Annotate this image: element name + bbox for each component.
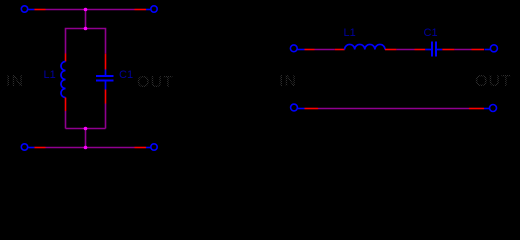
wire right branch bottom (105, 104, 107, 129)
svg-text:L1: L1 (44, 69, 56, 81)
wire top rail right segment (86, 9, 135, 11)
svg-text:IN: IN (6, 73, 24, 90)
wire bottom rail right segment (86, 147, 135, 149)
wire stem from top rail to tank top bar (85, 10, 87, 29)
wire C1 to output (454, 49, 471, 51)
pin C1 top (red) (105, 54, 107, 70)
node junction dot tank bottom T (84, 127, 88, 131)
pin L1 bottom (red) (65, 98, 67, 112)
terminal P1 (top-left connector) (21, 6, 34, 12)
inductor L1 (vertical coil, bumps left) (61, 62, 66, 98)
node label OUT (dim) (137, 74, 174, 91)
node junction dot bottom rail (84, 146, 88, 150)
terminal P7 (bottom-left connector) (291, 104, 305, 111)
svg-text:OUT: OUT (475, 73, 512, 90)
wire tank top bar (66, 29, 106, 54)
svg-text:OUT: OUT (137, 74, 174, 91)
pin of P4 (red stub) (135, 147, 147, 149)
wire bottom return rail (318, 108, 469, 110)
svg-text:C1: C1 (119, 69, 133, 81)
node label OUT (dim) (475, 73, 512, 90)
wire stem from tank bottom bar to bottom rail (85, 129, 87, 148)
wire bottom rail left segment (46, 147, 86, 149)
pin of P5 (red stub) (305, 49, 315, 51)
pin of P8 (red stub) (469, 108, 484, 110)
pin of P1 (red stub) (34, 9, 45, 11)
pin of P7 (red stub) (305, 108, 319, 110)
wire left branch bottom (65, 111, 67, 129)
terminal P8 (bottom-right connector) (484, 105, 497, 112)
capacitor C1 (horizontal, vertical plates) (425, 42, 442, 57)
pin L1 right (red) (385, 49, 396, 51)
svg-text:C1: C1 (424, 27, 438, 39)
inductor L1 (horizontal coil, bumps up) (345, 44, 385, 49)
pin of P3 (red stub) (34, 147, 45, 149)
pin L1 left (red) (335, 49, 345, 51)
node junction dot top rail (84, 8, 88, 12)
terminal P3 (bottom-left connector) (21, 144, 34, 150)
pin of P2 (red stub) (135, 9, 147, 11)
terminal P4 (bottom-right connector) (146, 144, 157, 150)
node junction dot tank top T (84, 27, 88, 31)
pin L1 top (red) (65, 54, 67, 62)
wire top rail left segment (46, 9, 86, 11)
wire input to L1 (315, 49, 335, 51)
svg-text:L1: L1 (344, 27, 356, 39)
wire L1 to C1 (396, 49, 414, 51)
pin C1 right (red) (442, 49, 454, 51)
wire tank bottom bar (66, 128, 106, 130)
terminal P2 (top-right connector) (146, 6, 157, 12)
pin of P6 (red stub) (472, 49, 485, 51)
capacitor C1 (vertical, horizontal plates) (96, 70, 114, 90)
terminal P6 (right output connector) (485, 45, 498, 52)
terminal P5 (left input connector) (290, 45, 304, 52)
svg-text:IN: IN (279, 73, 297, 90)
pin C1 bottom (red) (105, 90, 107, 104)
node label IN (dim) (279, 73, 297, 90)
pin C1 left (red) (415, 49, 426, 51)
node label IN (dim) (6, 73, 24, 90)
